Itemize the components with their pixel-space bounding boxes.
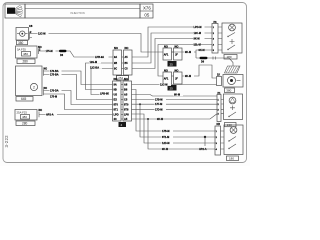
svg-text:INJECTION: INJECTION — [71, 11, 85, 15]
svg-text:9K-M: 9K-M — [185, 51, 191, 54]
svg-text:8T8: 8T8 — [124, 108, 129, 112]
header page box X76 05 — [140, 4, 153, 18]
wire pair2 row1 to motor bracket M2 — [132, 83, 217, 87]
label of U3 — [227, 156, 239, 161]
svg-text:25A F25: 25A F25 — [17, 110, 28, 114]
svg-text:8T1: 8T1 — [114, 108, 119, 112]
svg-text:645: 645 — [21, 97, 27, 101]
svg-text:X76: X76 — [143, 6, 151, 11]
wire pair B right to motor bracket — [182, 65, 217, 78]
svg-text:12L-M: 12L-M — [194, 44, 201, 47]
svg-text:EX: EX — [114, 98, 118, 102]
svg-text:9A: 9A — [114, 83, 117, 87]
component U2 (right mid unit 190) — [217, 92, 243, 122]
lower pins of M3 — [44, 87, 48, 95]
header box left — [5, 4, 25, 18]
svg-text:280: 280 — [22, 122, 28, 126]
svg-text:LPB-9K: LPB-9K — [100, 93, 109, 96]
label of U2 — [225, 123, 237, 128]
svg-text:05: 05 — [144, 13, 149, 18]
svg-text:9B: 9B — [114, 88, 117, 92]
svg-text:12G-M: 12G-M — [90, 61, 98, 64]
svg-text:5A F35: 5A F35 — [17, 48, 26, 52]
label box of R1 — [117, 76, 129, 81]
svg-text:A8: A8 — [124, 83, 128, 87]
svg-text:NO: NO — [124, 77, 128, 81]
top wire labels — [193, 25, 208, 52]
svg-text:180: 180 — [229, 157, 234, 161]
black label of R4 — [119, 122, 127, 127]
svg-text:12C-M: 12C-M — [160, 84, 168, 87]
svg-text:17B-M: 17B-M — [155, 99, 163, 102]
fuse F35 5A — [16, 46, 38, 58]
label of U1 — [224, 55, 237, 60]
pin of F25 — [39, 109, 43, 117]
svg-text:3-222: 3-222 — [4, 135, 9, 148]
wire 170-BA M3 to pair2 row1 — [47, 69, 113, 84]
component U1 (top right unit) — [212, 21, 242, 53]
svg-text:9K-M: 9K-M — [185, 75, 191, 78]
wire pair1 row1 up to comp A pin1 — [132, 27, 212, 69]
svg-text:175-BA: 175-BA — [50, 74, 59, 77]
connector pair R4 (middle lower big) — [113, 77, 132, 121]
header title box — [25, 4, 140, 18]
svg-text:C8: C8 — [29, 24, 33, 28]
svg-text:17B-M: 17B-M — [162, 130, 170, 133]
svg-text:9K-M: 9K-M — [199, 49, 205, 52]
splice D6 — [59, 50, 67, 57]
svg-text:380: 380 — [18, 41, 24, 45]
svg-text:LPD-M: LPD-M — [194, 26, 202, 29]
svg-text:2: 2 — [33, 85, 35, 89]
svg-text:180: 180 — [227, 55, 232, 59]
fuse F25 25A — [15, 110, 37, 121]
connector pair R1 (middle upper) — [113, 46, 132, 75]
wire 175-M with splice D6 to pair 1 row1 — [42, 49, 113, 57]
svg-text:175-M: 175-M — [50, 96, 57, 99]
svg-text:9K-M: 9K-M — [162, 148, 168, 151]
wire 175-M M3 to pair2 row6 — [47, 94, 113, 110]
svg-text:17F-M: 17F-M — [155, 103, 162, 106]
svg-text:9B: 9B — [114, 62, 117, 65]
label 280 under F35 — [17, 59, 35, 64]
splice D6M and ground wire — [196, 57, 233, 67]
riser pair1 row3 to pair2 row3 — [90, 66, 114, 96]
component M3 motor 645 (left big) — [16, 66, 43, 96]
svg-text:NO: NO — [44, 87, 48, 90]
svg-text:480: 480 — [22, 115, 27, 119]
black label of R3 — [168, 85, 177, 91]
svg-text:LPB-9A: LPB-9A — [95, 56, 104, 59]
svg-text:US: US — [114, 93, 118, 97]
svg-text:NO: NO — [39, 109, 43, 112]
svg-text:12C-M: 12C-M — [38, 32, 46, 35]
svg-text:NO: NO — [125, 46, 129, 50]
svg-text:9K-M: 9K-M — [174, 94, 180, 97]
riser comp A pin4 from pair B — [158, 45, 212, 77]
chassis ground MH — [225, 66, 241, 73]
label 645 — [16, 97, 33, 102]
svg-text:B8: B8 — [124, 88, 128, 92]
black label of R2 — [168, 61, 177, 67]
svg-text:A5: A5 — [124, 117, 128, 121]
component M2 motor (right mid) — [217, 74, 244, 87]
svg-text:AP2-A: AP2-A — [46, 114, 54, 117]
svg-text:9K-M: 9K-M — [157, 118, 163, 121]
svg-text:480: 480 — [23, 52, 28, 56]
svg-text:C5: C5 — [124, 98, 128, 102]
connector pins of M1 — [29, 24, 33, 39]
svg-text:8T1-M: 8T1-M — [162, 136, 169, 139]
component M1 motor 380 (top left) — [16, 28, 29, 41]
svg-text:175-M: 175-M — [46, 50, 53, 53]
component U3 (bottom right unit) — [215, 123, 243, 155]
svg-text:25: 25 — [170, 62, 174, 66]
wire pair2 row7 to comp B pin4 — [132, 114, 216, 151]
label 380 — [17, 41, 28, 46]
pin of F35 — [38, 46, 42, 54]
wire label LPB-9A — [95, 55, 109, 59]
svg-text:AF1: AF1 — [164, 54, 169, 57]
svg-text:12C-BA: 12C-BA — [90, 66, 99, 69]
wire pair2 row2 down to bottom row1 — [132, 90, 216, 134]
svg-text:8T0: 8T0 — [114, 103, 119, 107]
harness icon connector — [7, 6, 23, 18]
wire pair2 row8 down to bottom row3 — [132, 114, 218, 149]
comp A pin5 wire from pair A right — [172, 50, 213, 58]
svg-text:280: 280 — [23, 60, 29, 64]
riser pair1 row2 to pair2 row2 — [86, 60, 114, 89]
svg-text:NO: NO — [44, 67, 48, 70]
label of M2 — [225, 88, 235, 93]
svg-text:4C: 4C — [114, 117, 117, 121]
svg-text:8T0: 8T0 — [124, 103, 129, 107]
wire pair2 row3 down to comp B pin2 — [132, 93, 218, 97]
label 280 under F25 — [16, 121, 35, 126]
connector pair R3 small (AF1 JF lower) — [163, 68, 182, 84]
svg-text:NO: NO — [114, 77, 118, 81]
svg-text:9A: 9A — [114, 56, 117, 59]
wire 175-BA M3 to pair2 row4 — [47, 73, 113, 100]
page number 3-222 — [4, 135, 9, 148]
svg-text:17D-M: 17D-M — [155, 108, 163, 111]
svg-text:LPD: LPD — [114, 113, 119, 117]
svg-text:9C: 9C — [114, 68, 117, 71]
wire pair2 row6 to comp B pin3 — [132, 108, 218, 112]
wire pair2 row5 down to bottom row2 with junction — [132, 103, 218, 151]
upper pins of M3 — [44, 67, 48, 75]
wire 12C-M from M1 to pair A — [32, 32, 163, 52]
svg-text:NO: NO — [114, 46, 118, 50]
svg-text:25: 25 — [170, 86, 174, 90]
svg-text:380: 380 — [226, 89, 231, 93]
svg-text:A5: A5 — [124, 93, 128, 97]
connector pair R2 small (AF1 JF upper) — [163, 44, 182, 60]
svg-text:12D-M: 12D-M — [162, 142, 170, 145]
svg-text:AF1: AF1 — [164, 78, 169, 81]
svg-text:254: 254 — [118, 76, 123, 80]
wire pair2 row4 to comp B pin1 — [132, 98, 218, 102]
wire 170-DA M3 to pair2 row5 — [47, 89, 113, 105]
svg-text:9K-M: 9K-M — [194, 38, 200, 41]
svg-text:170-DA: 170-DA — [50, 90, 59, 93]
svg-text:LP8: LP8 — [124, 113, 129, 117]
wire AP2-A F25 to pair2 row7 — [42, 113, 113, 117]
svg-text:12C-M: 12C-M — [194, 32, 202, 35]
page border frame — [3, 3, 247, 163]
